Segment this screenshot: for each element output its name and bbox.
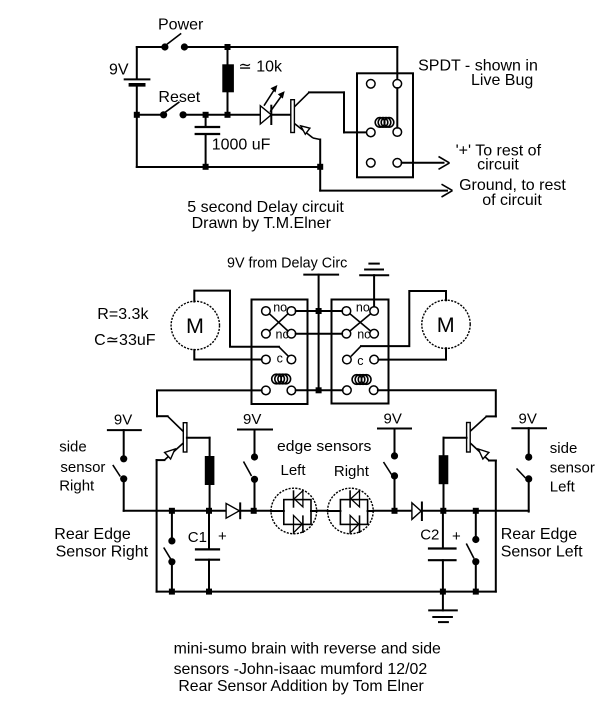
diode D2 left	[226, 503, 240, 518]
node resistor-base junction	[225, 112, 231, 118]
relay K1 coil	[375, 118, 394, 128]
transistor Q1 NPN	[291, 92, 367, 190]
svg-text:nc: nc	[276, 328, 289, 342]
node C1 junction	[206, 508, 212, 514]
svg-text:Right: Right	[59, 477, 95, 494]
wire left coil-row to left rail	[157, 390, 262, 416]
ground terminal top (inverted)	[360, 264, 388, 307]
wire motor M2 bottom to relay K3 c-right	[378, 348, 446, 359]
rear edge sensor left switch	[466, 511, 479, 592]
svg-text:Rear Edge: Rear Edge	[54, 526, 131, 543]
relay K1 SPDT box	[357, 73, 413, 177]
node emitter-rail junction	[317, 164, 323, 170]
capacitor C1	[188, 511, 227, 592]
9V supply col3 (edge sensor right)	[378, 411, 411, 511]
svg-text:Rear Sensor Addition by Tom El: Rear Sensor Addition by Tom Elner	[178, 678, 424, 695]
resistor R1 10k	[222, 47, 283, 115]
node cap-rail junction	[203, 164, 209, 170]
relay K1 internal wire top pin to mid pin	[396, 88, 398, 128]
wire motor M2 top to relay K3 c-left	[361, 291, 446, 346]
svg-text:Rear Edge: Rear Edge	[501, 526, 578, 543]
svg-text:c: c	[357, 354, 363, 368]
svg-text:no: no	[356, 300, 370, 314]
svg-text:9V: 9V	[243, 411, 261, 428]
motor M2 right	[422, 300, 470, 348]
ground G2	[429, 592, 457, 623]
edge sensor right circle	[328, 488, 374, 534]
svg-text:Live Bug: Live Bug	[471, 72, 533, 89]
svg-text:≃ 10k: ≃ 10k	[238, 59, 283, 76]
resistor R3 right	[439, 455, 449, 511]
node cap junction	[203, 112, 209, 118]
mid rail	[124, 510, 529, 512]
transistor Q3 right PNP	[444, 416, 496, 591]
capacitor C2	[420, 511, 461, 592]
bottom rail	[157, 591, 496, 593]
svg-text:Reset: Reset	[158, 89, 200, 106]
relay K1 pins	[367, 80, 376, 89]
node rear-edge-left junction	[473, 508, 479, 514]
ground output wire	[320, 184, 452, 197]
relay K3 pins	[342, 307, 351, 316]
relay K2 crossover wires	[269, 314, 288, 331]
wire coil-row link between relays	[296, 389, 343, 391]
node edge-9V-right junction	[392, 508, 398, 514]
svg-text:M: M	[186, 314, 204, 338]
svg-text:c: c	[277, 352, 283, 366]
svg-text:C≃33uF: C≃33uF	[94, 332, 156, 349]
wire nc-row link between relays	[296, 333, 342, 335]
svg-text:Sensor Left: Sensor Left	[501, 543, 583, 560]
svg-text:9V from Delay Circ: 9V from Delay Circ	[227, 256, 347, 272]
wire to relay top pin	[396, 47, 398, 80]
svg-text:Right: Right	[334, 463, 370, 480]
relay K2 box (left DPDT)	[252, 300, 308, 405]
node top junction	[225, 44, 231, 50]
LED D1	[260, 85, 291, 124]
9V supply col1 with side sensor Right switch	[108, 412, 141, 511]
svg-text:sensors -John-isaac mumford 1: sensors -John-isaac mumford 12/02	[174, 661, 428, 678]
motor M1 left	[171, 301, 219, 349]
svg-text:9V: 9V	[384, 411, 402, 428]
svg-text:+: +	[218, 528, 227, 545]
svg-text:M: M	[437, 313, 455, 337]
node rear-right bottom junction	[169, 589, 175, 595]
svg-text:edge sensors: edge sensors	[277, 438, 371, 455]
rear edge sensor right switch	[164, 511, 176, 592]
svg-text:9V: 9V	[519, 411, 537, 428]
svg-text:of circuit: of circuit	[482, 192, 542, 209]
svg-text:side: side	[550, 440, 578, 457]
wire no-row link between relays	[296, 310, 342, 312]
relay K3 box (right DPDT)	[332, 300, 389, 404]
wire '+' output from relay bottom-right pin	[402, 157, 450, 170]
svg-text:circuit: circuit	[477, 156, 519, 173]
diode D3 right	[412, 503, 422, 521]
node rear-left bottom junction	[473, 589, 479, 595]
edge sensor left circle	[271, 488, 317, 534]
svg-text:Left: Left	[281, 462, 307, 479]
svg-text:Drawn by T.M.Elner: Drawn by T.M.Elner	[192, 215, 332, 232]
svg-text:5 second Delay circuit: 5 second Delay circuit	[187, 199, 344, 216]
svg-text:side: side	[59, 439, 87, 456]
capacitor C3 1000uF	[195, 115, 271, 167]
node edge-9V-left junction	[251, 508, 257, 514]
relay K3 coil	[352, 375, 371, 385]
relay K2 coil	[272, 374, 291, 384]
transistor Q2 left PNP	[157, 416, 210, 591]
svg-text:+: +	[452, 528, 461, 545]
svg-text:no: no	[273, 300, 287, 314]
svg-text:9V: 9V	[114, 412, 132, 429]
svg-text:Sensor Right: Sensor Right	[56, 543, 149, 560]
relay K2 pins	[262, 307, 271, 316]
9V supply col4 with side sensor Left switch	[512, 411, 546, 512]
power switch S1	[137, 17, 398, 51]
svg-text:Left: Left	[550, 479, 576, 496]
wire motor M1 top to relay K2 c-right	[194, 291, 279, 347]
node ground bottom junction	[440, 589, 446, 595]
svg-text:sensor: sensor	[60, 459, 105, 476]
node 9V-coil-row junction	[316, 387, 322, 393]
wire motor M1 bottom to relay K2 c-left	[194, 350, 261, 360]
reset switch S2	[137, 89, 260, 118]
svg-text:nc: nc	[357, 328, 370, 342]
svg-text:mini-sumo brain with reverse a: mini-sumo brain with reverse and side	[174, 640, 441, 657]
node battery-reset junction	[134, 112, 140, 118]
9V supply col2 (edge sensor left)	[238, 411, 272, 511]
svg-text:sensor: sensor	[550, 459, 595, 476]
resistor R2 left	[205, 456, 215, 511]
svg-text:C2: C2	[420, 527, 439, 544]
wire right coil-row to right rail	[378, 390, 496, 416]
node C1 bottom junction	[206, 589, 212, 595]
node 9V-no-row junction	[316, 308, 322, 314]
bottom rail of top circuit	[137, 166, 320, 168]
svg-text:Power: Power	[158, 17, 204, 34]
svg-text:C1: C1	[188, 529, 207, 546]
svg-text:9V: 9V	[109, 62, 129, 79]
svg-text:1000 uF: 1000 uF	[212, 137, 271, 154]
relay K3 crossover wires	[350, 314, 371, 331]
node C2 junction	[440, 508, 446, 514]
svg-text:R=3.3k: R=3.3k	[97, 306, 149, 323]
battery B1 9V	[109, 47, 149, 167]
terminal 9V from delay circuit	[227, 256, 347, 391]
node rear-edge-right junction	[169, 508, 175, 514]
